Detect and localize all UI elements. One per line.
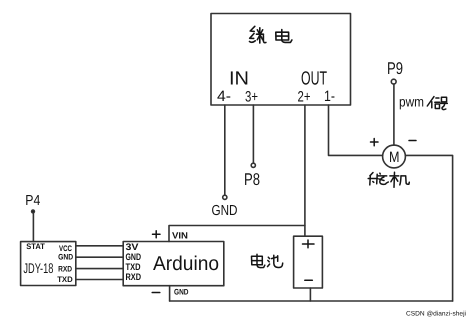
relay box U1 (211, 14, 351, 106)
svg-text:P4: P4 (25, 193, 40, 209)
svg-text:3+: 3+ (245, 89, 258, 106)
node P4 dot (32, 210, 35, 213)
wire Arduino VIN to battery + (169, 226, 305, 242)
battery minus sign (305, 279, 313, 281)
Arduino plus sign (153, 231, 161, 238)
wire battery - stub (309, 288, 311, 301)
svg-text:pwm: pwm (399, 94, 424, 110)
label 电 (battery) (252, 254, 265, 267)
node P8 terminal circle (251, 163, 255, 167)
battery BT1 box (294, 236, 323, 288)
wire P9 to motor (PWM signal) (393, 84, 395, 145)
wire JDY TXD to Arduino RXD (76, 279, 123, 281)
wire relay pin 1- to motor + (329, 105, 383, 155)
wire motor - to bottom rail (405, 155, 452, 301)
label 舵 (servo) (368, 173, 388, 185)
label 池 (battery) (268, 255, 283, 267)
wire JDY RXD to Arduino TXD (76, 268, 123, 270)
wire Arduino GND stub (169, 286, 171, 301)
label 电 (relay) (276, 30, 292, 43)
svg-text:GND: GND (212, 203, 238, 219)
wire JDY VCC to Arduino 3V (76, 245, 123, 247)
motor M1 circle (383, 145, 406, 168)
JDY-18 module box (21, 242, 76, 286)
battery plus sign (303, 240, 315, 248)
wire relay pin 3+ to P8 node (252, 105, 254, 163)
Arduino minus sign (152, 292, 160, 294)
motor minus sign (409, 140, 416, 142)
wire bottom ground rail (170, 300, 453, 302)
node GND terminal circle (223, 195, 227, 199)
Arduino module box (123, 242, 224, 286)
svg-text:CSDN @dianzi-sheji: CSDN @dianzi-sheji (406, 311, 466, 318)
svg-text:STAT: STAT (26, 242, 45, 251)
svg-text:OUT: OUT (301, 69, 327, 90)
label 号 (signal) (441, 97, 448, 109)
svg-text:M: M (389, 149, 400, 166)
svg-text:GND: GND (58, 252, 73, 261)
svg-text:VIN: VIN (172, 231, 188, 241)
svg-text:1-: 1- (324, 88, 335, 105)
svg-text:GND: GND (174, 288, 189, 297)
svg-text:2+: 2+ (298, 89, 311, 106)
svg-text:4-: 4- (217, 88, 231, 105)
wire relay pin 2+ to battery + (304, 105, 306, 236)
node P9 terminal circle (391, 79, 396, 84)
svg-text:TXD: TXD (57, 275, 73, 284)
label 信 (signal) (427, 97, 440, 109)
svg-text:RXD: RXD (58, 265, 72, 274)
motor plus sign (371, 139, 379, 146)
wire P4 to JDY STAT (32, 213, 34, 242)
svg-text:JDY-18: JDY-18 (23, 260, 53, 276)
svg-text:P8: P8 (244, 170, 260, 189)
label 继 (relay) (250, 26, 266, 43)
svg-text:P9: P9 (387, 59, 403, 78)
svg-text:RXD: RXD (126, 272, 142, 283)
wire relay pin 4- to GND node (224, 105, 226, 195)
label 机 (servo) (390, 172, 409, 187)
svg-text:IN: IN (229, 69, 249, 90)
svg-text:Arduino: Arduino (153, 253, 219, 275)
wire JDY GND to Arduino GND (76, 256, 123, 258)
